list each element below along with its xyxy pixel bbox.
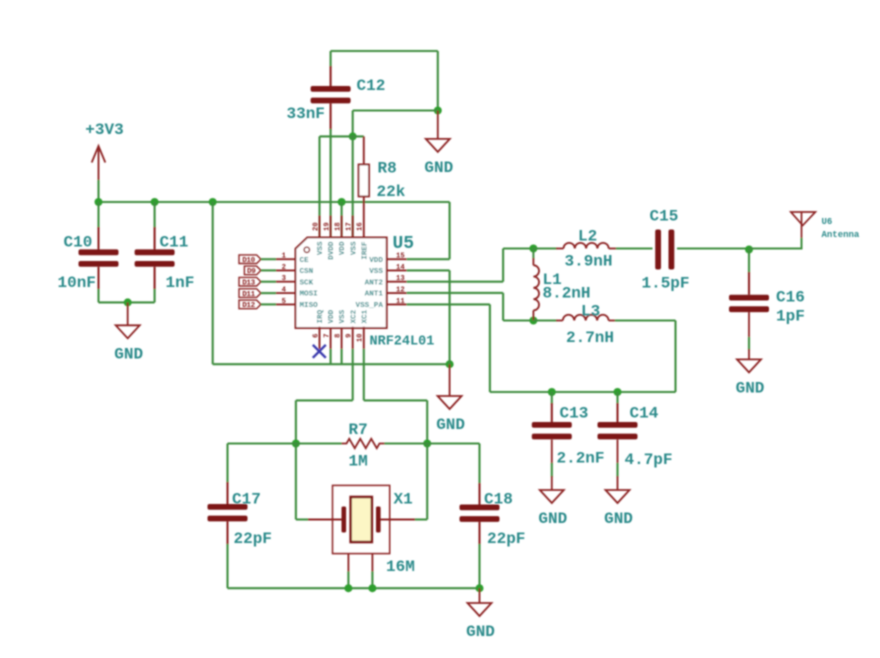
pin 20 stub (319, 216, 321, 238)
svg-text:7: 7 (323, 334, 331, 338)
svg-text:1.5pF: 1.5pF (642, 275, 690, 293)
node R7 left (292, 440, 300, 448)
capacitor C18 (460, 505, 500, 522)
wire pin8 VSS down (341, 349, 343, 364)
capacitor C16 (729, 295, 769, 312)
pin 11 stub (387, 303, 407, 305)
svg-text:1pF: 1pF (776, 308, 805, 326)
node crystal case 2 (368, 584, 376, 592)
wire C14 top vertical (616, 392, 618, 404)
svg-text:ANT1: ANT1 (365, 291, 384, 299)
node antenna C16 (745, 246, 753, 254)
node R7 right (423, 440, 431, 448)
svg-text:22pF: 22pF (487, 530, 525, 548)
svg-text:U5: U5 (393, 234, 415, 254)
svg-text:16: 16 (357, 222, 365, 231)
wire C13 top vertical (551, 392, 553, 404)
svg-text:1nF: 1nF (166, 274, 195, 292)
svg-text:C15: C15 (650, 208, 679, 226)
wire rail down to pin15 (449, 202, 451, 259)
wire C13 to GND (551, 440, 553, 464)
node C18 bottom GND (476, 584, 484, 592)
wire XC2 left (296, 399, 353, 401)
svg-text:L3: L3 (581, 303, 600, 321)
wire crystal right vertical (426, 444, 428, 520)
svg-text:3.9nH: 3.9nH (565, 253, 613, 271)
pin 1 indicator (304, 247, 309, 252)
svg-text:MOSI: MOSI (300, 291, 318, 299)
svg-text:3: 3 (282, 275, 286, 283)
wire ANT2 up (502, 249, 504, 282)
wire +3V3 stem (97, 180, 99, 202)
ground under crystal rail (466, 603, 495, 641)
svg-text:Antenna: Antenna (822, 230, 860, 240)
svg-text:+3V3: +3V3 (85, 121, 123, 139)
wire C16 top vertical (748, 250, 750, 274)
ground under C13 (538, 490, 567, 528)
wire C16 to GND (748, 312, 750, 338)
svg-text:VDD: VDD (369, 257, 383, 265)
wire to GND (479, 588, 481, 603)
svg-text:1: 1 (282, 253, 287, 261)
pin 8 stub (341, 327, 343, 349)
svg-text:VSS: VSS (339, 309, 347, 323)
svg-text:D11: D11 (242, 291, 255, 299)
svg-text:22pF: 22pF (234, 530, 272, 548)
node +3V3 junction C10 (95, 198, 103, 206)
pin 10 stub XC1 (363, 327, 365, 349)
wire D12 to pin 5 (261, 303, 276, 305)
svg-text:XC1: XC1 (361, 309, 369, 323)
svg-text:10nF: 10nF (58, 274, 96, 292)
svg-text:R8: R8 (378, 160, 397, 178)
wire +3V3 down branch (212, 202, 214, 364)
wire to GND (127, 302, 129, 325)
svg-text:12: 12 (396, 287, 405, 295)
resistor R8 (359, 136, 369, 237)
wire C11 top vertical (154, 202, 156, 228)
wire C18 top lead (478, 483, 480, 505)
pin 14 stub (387, 269, 407, 271)
svg-text:D9: D9 (247, 268, 256, 276)
pin 9 stub XC2 (352, 327, 354, 349)
wire ANT1 to L3 node (503, 319, 533, 321)
svg-text:D13: D13 (242, 280, 255, 288)
wire pin15 VDD (407, 258, 450, 260)
pin 6 stub IRQ (319, 327, 321, 349)
svg-text:C12: C12 (357, 77, 386, 95)
svg-text:C18: C18 (484, 491, 513, 509)
wire C12 lower lead (330, 103, 332, 130)
svg-text:33nF: 33nF (287, 105, 325, 123)
svg-text:13: 13 (396, 275, 405, 283)
svg-text:5: 5 (282, 298, 286, 306)
svg-text:11: 11 (396, 298, 405, 306)
pin 2 stub (276, 269, 296, 271)
wire XC2 to R7 left (295, 400, 297, 443)
svg-text:4: 4 (282, 287, 287, 295)
pin 5 stub (276, 303, 296, 305)
svg-text:17: 17 (346, 222, 354, 231)
pin 18 stub (341, 216, 343, 238)
pin 1 stub (276, 258, 296, 260)
wire pin11 VSS_PA (407, 303, 490, 305)
svg-text:4.7pF: 4.7pF (625, 451, 673, 469)
svg-text:MISO: MISO (300, 302, 319, 310)
node GND junction (124, 298, 132, 306)
svg-text:GND: GND (538, 510, 567, 528)
svg-text:14: 14 (396, 264, 405, 272)
wire pin14 VSS down to gnd (449, 270, 451, 364)
pin 3 stub (276, 281, 296, 283)
svg-text:VSS: VSS (369, 268, 383, 276)
svg-text:CSN: CSN (300, 268, 314, 276)
wire C17 top vertical (226, 444, 228, 484)
svg-text:1M: 1M (349, 453, 368, 471)
svg-text:GND: GND (114, 345, 143, 363)
svg-text:ANT2: ANT2 (365, 279, 384, 287)
node ANT2 L1 L2 (529, 245, 537, 253)
ground under C10 C11 (114, 325, 143, 363)
svg-text:D10: D10 (242, 257, 255, 265)
wire XC1 right (364, 399, 427, 401)
wire L3 right down (674, 321, 676, 393)
wire down to vss node (352, 111, 354, 137)
ground right of C12 (424, 139, 453, 177)
node flag D9 (244, 266, 261, 276)
wire D13 to pin 3 (261, 281, 276, 283)
wire crystal case lead 1 (347, 572, 349, 589)
capacitor C13 (532, 422, 572, 439)
svg-text:GND: GND (436, 416, 465, 434)
svg-text:U6: U6 (822, 217, 833, 227)
svg-text:XC2: XC2 (350, 309, 358, 323)
wire crystal case lead 2 (371, 572, 373, 589)
wire crystal bottom rail (228, 587, 480, 589)
wire C12 top horizontal (331, 50, 438, 52)
svg-text:D12: D12 (242, 302, 255, 310)
op-amp U1 IC U5 NRF24L01 body (296, 237, 387, 328)
wire bottom VDD-VSS horizontal (213, 363, 450, 365)
wire pin13 ANT2 (407, 281, 503, 283)
svg-text:SCK: SCK (300, 279, 314, 287)
wire C17 top rail (228, 442, 296, 444)
svg-text:20: 20 (312, 222, 320, 231)
capacitor C11 (135, 249, 175, 266)
svg-text:2.7nH: 2.7nH (566, 329, 614, 347)
wire C11 bottom lead (154, 267, 156, 289)
wire C14 to GND (617, 440, 619, 464)
capacitor C17 (208, 504, 248, 521)
svg-text:C17: C17 (232, 491, 261, 509)
node +3V3 junction pin18 (338, 198, 346, 206)
wire pin7 VDD down (330, 349, 332, 364)
wire C10 bottom lead (97, 267, 99, 289)
power flag +3V3 (85, 121, 123, 180)
wire ANT2 to L2 node (503, 247, 533, 249)
svg-text:22k: 22k (377, 183, 406, 201)
inductor L1 (533, 249, 539, 321)
wire crystal right horizontal (415, 518, 427, 520)
node flag D11 (239, 289, 261, 299)
node flag D10 (239, 255, 261, 265)
wire XC1 to R7 right (426, 400, 428, 443)
wire to antenna (749, 247, 802, 249)
wire C10 top vertical (97, 202, 99, 228)
svg-text:C16: C16 (776, 289, 805, 307)
wire D10 to pin 1 (261, 258, 276, 260)
node GND C12 (434, 107, 442, 115)
svg-text:VSS: VSS (350, 241, 358, 255)
svg-text:19: 19 (323, 222, 331, 231)
wire pin12 ANT1 (407, 292, 503, 294)
wire C12 right vertical (437, 51, 439, 111)
svg-text:GND: GND (736, 379, 765, 397)
pin 12 stub (387, 292, 407, 294)
svg-text:GND: GND (466, 623, 495, 641)
capacitor C12 (311, 86, 351, 103)
pin 15 stub (387, 258, 407, 260)
svg-text:VDD: VDD (339, 241, 347, 255)
wire XC1 down (363, 349, 365, 401)
wire C17 bottom lead (226, 521, 228, 545)
svg-text:C11: C11 (160, 234, 189, 252)
svg-text:GND: GND (424, 159, 453, 177)
svg-text:R7: R7 (349, 421, 368, 439)
pin 17 stub (352, 216, 354, 238)
node flag D12 (239, 300, 261, 310)
wire to pin17 VSS (352, 136, 354, 237)
svg-text:CE: CE (300, 257, 310, 265)
node flag D13 (239, 277, 261, 287)
svg-text:VDD: VDD (328, 309, 336, 323)
capacitor C15 (616, 230, 749, 270)
wire to pin19 DVDD (330, 129, 332, 237)
node +3V3 junction C11 (151, 198, 159, 206)
svg-text:8.2nH: 8.2nH (543, 285, 591, 303)
wire crystal left vertical (295, 444, 297, 520)
wire to C18 top (427, 442, 479, 444)
wire junction to C12 gnd (353, 109, 438, 111)
svg-text:15: 15 (396, 253, 405, 261)
wire bottom cap rail (490, 391, 676, 393)
ground under C14 (604, 490, 633, 528)
capacitor C10 (79, 249, 119, 266)
wire D11 to pin 4 (261, 292, 276, 294)
wire C18 bottom lead (478, 522, 480, 545)
inductor L3 (533, 315, 675, 321)
ground under VSS wire (436, 396, 465, 434)
wire to GND (437, 111, 439, 139)
node C13 junction (548, 388, 556, 396)
wire pin14 VSS (407, 269, 450, 271)
svg-text:VSS: VSS (317, 241, 325, 255)
wire XC2 down (352, 349, 354, 401)
ground under C16 (736, 359, 765, 397)
pin 7 stub (330, 327, 332, 349)
svg-text:L2: L2 (578, 228, 597, 246)
wire pin18 VDD to rail (341, 202, 343, 237)
svg-text:IREF: IREF (361, 241, 369, 260)
svg-text:IRQ: IRQ (317, 309, 325, 323)
capacitor C14 (598, 422, 638, 439)
svg-text:C14: C14 (630, 405, 659, 423)
svg-text:8: 8 (334, 334, 342, 338)
node VSS 4-way junction (349, 132, 357, 140)
pin 4 stub (276, 292, 296, 294)
svg-text:16M: 16M (386, 558, 415, 576)
svg-text:18: 18 (334, 222, 342, 231)
svg-text:GND: GND (604, 510, 633, 528)
wire C10-C11 bottom (99, 301, 155, 303)
svg-text:NRF24L01: NRF24L01 (370, 335, 435, 350)
svg-text:C13: C13 (560, 405, 589, 423)
svg-text:2.2nF: 2.2nF (557, 450, 605, 468)
wire ANT1 down (502, 293, 504, 321)
wire C18 down (478, 444, 480, 484)
wire VSS_PA down (489, 304, 491, 392)
node crystal case 1 (344, 584, 352, 592)
node C14 junction (614, 388, 622, 396)
antenna U6 (791, 212, 860, 250)
node +3V3 branch to VDD pin7 (209, 198, 217, 206)
crystal X1 (308, 485, 415, 571)
wire D9 to pin 2 (261, 269, 276, 271)
resistor R7 (296, 439, 427, 448)
wire crystal left horizontal (296, 518, 308, 520)
svg-text:2: 2 (282, 264, 286, 272)
svg-text:DVDD: DVDD (328, 241, 336, 260)
wire to GND (449, 364, 451, 396)
wire C12 top vertical (330, 51, 332, 67)
svg-text:VSS_PA: VSS_PA (356, 302, 384, 310)
wire to pin20 VSS (318, 136, 320, 237)
wire vss horizontal (320, 135, 364, 137)
svg-text:C10: C10 (64, 234, 93, 252)
no-connect X pin 6 (313, 345, 326, 358)
node GND VSS junction (446, 360, 454, 368)
wire +3V3 rail (99, 201, 450, 203)
node ANT1 L1 L3 (529, 317, 537, 325)
inductor L2 (533, 243, 617, 249)
pin 13 stub (387, 281, 407, 283)
svg-text:X1: X1 (394, 491, 413, 509)
